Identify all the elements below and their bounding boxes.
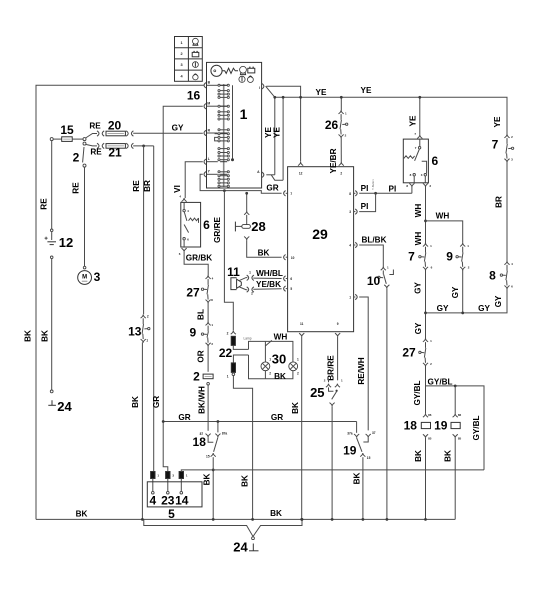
wire GR pin M column (163, 106, 203, 471)
wire BK below 19 coil (454, 438, 456, 520)
svg-text:BK: BK (24, 330, 33, 342)
icon bulb A in switch 1 (240, 66, 247, 73)
ignition switch U1 box (207, 62, 262, 188)
switch S26 (339, 110, 344, 114)
wire pin A link (266, 174, 275, 176)
relay 6 right bottom pins (409, 183, 414, 187)
svg-text:12: 12 (299, 171, 303, 175)
ECU U29 box (288, 167, 354, 332)
ECU pin 9 bottom (335, 333, 340, 337)
svg-text:29: 29 (312, 226, 328, 242)
svg-text:2: 2 (269, 371, 271, 375)
switch 1 right pin A (262, 172, 264, 177)
svg-text:1: 1 (180, 41, 182, 45)
wire GY below 9 (462, 270, 464, 313)
svg-text:RE: RE (132, 180, 141, 192)
ECU pin 2 top (339, 162, 344, 166)
svg-text:85: 85 (428, 436, 432, 440)
wire GY below 7 (425, 270, 427, 313)
ground 24 bottom (252, 537, 255, 540)
svg-text:11: 11 (300, 322, 304, 326)
svg-text:RE: RE (90, 148, 102, 157)
svg-text:14: 14 (175, 494, 189, 508)
wire bus470 frame return (181, 470, 484, 472)
wire BR column to connector 5 pin 4 (153, 146, 155, 472)
wire 18 output to ground buses (212, 457, 214, 519)
svg-text:15: 15 (206, 455, 210, 459)
svg-text:1: 1 (227, 374, 229, 378)
wire GR bus into 19 37a (356, 422, 358, 433)
svg-text:16: 16 (187, 89, 201, 103)
wire BR/RE ECU pin9 to switch 25 (337, 337, 339, 381)
svg-text:2: 2 (73, 151, 80, 165)
switch S27 left (206, 275, 211, 279)
svg-text:6: 6 (203, 218, 210, 232)
wire BK ECU pin11 to ground bus (301, 337, 303, 520)
wire GR/BK relay6 to switch 27 (184, 252, 208, 276)
svg-text:28: 28 (251, 219, 265, 234)
wire WH branch to switch 9 (426, 221, 463, 243)
starter motor M3 (83, 266, 86, 269)
svg-text:RE: RE (39, 198, 48, 210)
wire YE top bus (266, 86, 507, 134)
battery B12 (50, 229, 53, 232)
svg-text:7: 7 (408, 250, 415, 264)
fuse F28 loop (246, 193, 248, 211)
svg-text:2: 2 (251, 292, 253, 296)
svg-text:YE: YE (273, 127, 282, 138)
svg-text:37: 37 (372, 431, 376, 435)
svg-text:15: 15 (60, 123, 74, 137)
svg-text:BR/RE: BR/RE (326, 355, 335, 381)
wire YE bus tap to switch 26 (340, 97, 342, 110)
svg-text:87a: 87a (222, 432, 228, 436)
svg-text:1: 1 (349, 296, 351, 300)
relay K6 right box (403, 139, 428, 183)
svg-text:BK: BK (444, 450, 453, 462)
svg-text:20: 20 (108, 119, 122, 133)
svg-text:22: 22 (219, 346, 233, 360)
switch S10 (381, 267, 386, 271)
svg-text:PI: PI (389, 184, 397, 193)
svg-text:2: 2 (340, 171, 342, 175)
svg-text:8: 8 (349, 192, 351, 196)
svg-text:26: 26 (325, 118, 339, 132)
ECU pin 4 right (355, 242, 357, 247)
fuse F20 (106, 131, 125, 136)
svg-text:6: 6 (431, 154, 438, 168)
relay 6 left bottom pin (182, 248, 187, 252)
wire BK below 18 coil (425, 438, 427, 520)
node switch 2 common (83, 138, 86, 141)
svg-text:GY/BL: GY/BL (427, 377, 452, 386)
switch 1 right pin I (262, 84, 264, 89)
wire GY switch27 right feed (425, 313, 427, 339)
svg-text:M: M (207, 102, 210, 106)
wire YE pair pin I to pin A (274, 97, 276, 175)
svg-text:2: 2 (193, 370, 200, 384)
svg-text:2: 2 (297, 371, 299, 375)
svg-text:86: 86 (458, 413, 462, 417)
svg-text:3: 3 (180, 63, 182, 67)
svg-text:10: 10 (291, 256, 295, 260)
ECU pin 6 left (284, 276, 286, 281)
relay 6 right top pin (417, 135, 422, 139)
svg-text:GR/RE: GR/RE (213, 217, 222, 243)
svg-text:GY: GY (172, 124, 184, 133)
wire GY fuse20 to pin R (133, 132, 203, 134)
svg-text:WH: WH (436, 211, 450, 220)
svg-text:YE: YE (408, 115, 417, 126)
svg-text:BK: BK (291, 402, 300, 414)
svg-text:BK: BK (41, 330, 50, 342)
svg-text:13: 13 (128, 325, 142, 339)
icon battery in switch 1 (248, 68, 255, 73)
svg-text:BK/WH: BK/WH (198, 386, 207, 414)
svg-text:5: 5 (290, 287, 292, 291)
svg-text:BK: BK (258, 248, 270, 257)
svg-text:2: 2 (147, 314, 149, 318)
wire BK below 13 (141, 342, 143, 519)
switch S9 left (206, 322, 211, 326)
svg-text:19: 19 (434, 419, 448, 433)
svg-text:BK: BK (274, 372, 286, 381)
svg-text:Y-Button: Y-Button (371, 179, 375, 190)
wire ground bus 525 (144, 519, 302, 536)
icon bulb B in switch 1 (239, 76, 245, 82)
switch 1 R-group bracket (215, 137, 218, 141)
relay 6 right internals (419, 139, 421, 146)
svg-text:BK: BK (76, 510, 88, 519)
key icon (211, 65, 222, 76)
fuse F15 (50, 138, 53, 141)
svg-text:GY/BL: GY/BL (472, 415, 481, 440)
wire BK/WH to switch 18 (207, 385, 209, 431)
svg-text:RE/WH: RE/WH (357, 357, 366, 384)
wire below 25 to ground bus (331, 406, 333, 519)
lamp unit 30 wiring frame (249, 341, 293, 378)
svg-text:7: 7 (492, 138, 499, 152)
ECU pin 3 right (355, 209, 357, 214)
svg-text:M: M (82, 275, 87, 281)
wire PI ECU pin8 to relay 6 right (359, 192, 412, 194)
wire BR (506, 162, 508, 261)
svg-text:BK: BK (352, 473, 361, 485)
wire RE battery column (51, 141, 53, 229)
svg-text:GY: GY (414, 322, 423, 334)
switch 1 left pin stubs (207, 84, 218, 86)
wire GY/BL to coil bus (425, 366, 427, 413)
svg-text:9: 9 (446, 250, 453, 264)
svg-text:18: 18 (193, 435, 207, 449)
svg-text:85: 85 (458, 436, 462, 440)
wire RE/WH ECU pin1 to switch 19 (359, 297, 368, 430)
ECU pin 1 right (355, 294, 357, 299)
svg-text:YE/BK: YE/BK (256, 280, 281, 289)
relay 6 left top pin (182, 198, 187, 202)
wire YE bus tap to relay 6 right (419, 97, 421, 135)
svg-text:BR: BR (143, 180, 152, 192)
wire pin I to ECU pin 12 (266, 86, 300, 162)
switch S2 lower branch to fuse 21 (83, 142, 86, 145)
wire BK below 19 (362, 457, 364, 519)
connector pins above box 5 (151, 472, 155, 479)
legend icon row3 bulb (193, 62, 199, 68)
svg-text:24: 24 (57, 399, 72, 414)
legend icon row4 lock (193, 75, 198, 80)
svg-text:11: 11 (227, 265, 240, 279)
svg-text:1: 1 (240, 106, 248, 122)
svg-text:WH: WH (414, 204, 423, 218)
svg-text:GY: GY (414, 282, 423, 294)
relay 6 left internals (183, 202, 185, 209)
svg-text:WH/BL: WH/BL (256, 269, 283, 278)
wire Y-pin to GR net (200, 174, 282, 193)
ECU pin 7 left (284, 191, 286, 196)
icon lock in switch 1 (248, 77, 254, 83)
svg-text:8: 8 (489, 269, 496, 283)
wire BL/BK ECU pin4 to switch 10 (359, 245, 383, 267)
svg-text:GR: GR (152, 396, 161, 408)
ECU pin 10 left (284, 255, 286, 260)
svg-text:BL/BK: BL/BK (361, 235, 386, 244)
ground 24 left (50, 390, 53, 393)
svg-text:30: 30 (272, 352, 286, 367)
connector 16 pin chevrons and letters (204, 83, 206, 88)
svg-text:BK: BK (131, 396, 140, 408)
svg-text:L: L (208, 157, 210, 161)
svg-text:BL: BL (196, 309, 205, 320)
switch S27 right (423, 338, 428, 342)
legend icon row2 battery (192, 52, 199, 56)
switch S18 left contacts (206, 434, 211, 438)
wire BL (207, 303, 209, 322)
legend icon row1 bulb (193, 38, 199, 44)
svg-text:3: 3 (94, 270, 101, 284)
coil K19 right (454, 386, 456, 414)
svg-text:YE/BR: YE/BR (329, 148, 338, 173)
GR bus to interlock switches (163, 421, 356, 423)
wire RE column to switch 13 (143, 146, 145, 314)
svg-text:YE: YE (316, 88, 327, 97)
svg-text:4: 4 (149, 494, 156, 508)
wire switch 10 to ground bus (386, 288, 388, 519)
svg-text:YE: YE (361, 86, 372, 95)
wire YE/BK horn to pin 5 (240, 287, 248, 290)
svg-text:15: 15 (367, 456, 371, 460)
svg-text:1: 1 (249, 270, 251, 274)
switch S25 (328, 379, 330, 383)
wire B-pin horizontal and outer-left BK vertical (36, 85, 204, 519)
wire GY below 8 (426, 289, 508, 313)
wire GR/RE column to lamp switch 22 (224, 191, 233, 331)
switch S19 left contacts (354, 434, 359, 438)
svg-text:WH: WH (274, 332, 288, 341)
legend table of indicator lamps (175, 37, 203, 82)
svg-text:25: 25 (310, 385, 324, 400)
svg-text:37a: 37a (347, 431, 353, 435)
switch 1 contact rows (218, 84, 220, 86)
svg-text:GR/BK: GR/BK (186, 253, 212, 262)
svg-text:86: 86 (428, 413, 432, 417)
svg-text:GY: GY (451, 286, 460, 298)
horn H11 (231, 278, 237, 290)
svg-text:9: 9 (189, 326, 196, 340)
svg-text:BK: BK (414, 450, 423, 462)
svg-text:VI: VI (173, 185, 182, 193)
svg-text:BK: BK (203, 474, 212, 486)
GY/BL bus (426, 386, 485, 470)
svg-text:PI: PI (361, 184, 369, 193)
svg-text:RE: RE (89, 122, 101, 131)
svg-text:YE: YE (493, 116, 502, 127)
svg-text:2: 2 (227, 331, 229, 335)
svg-text:GY: GY (478, 304, 490, 313)
fuse F2 lower (203, 374, 213, 379)
svg-text:4: 4 (349, 244, 351, 248)
wire OR (207, 346, 209, 372)
connector 22 upper pin (231, 331, 236, 335)
connector 22 lower pin (233, 355, 248, 363)
svg-text:GY: GY (494, 295, 503, 307)
ECU pin 12 top (298, 162, 303, 166)
ECU pin 11 bottom (299, 333, 304, 337)
svg-text:GR: GR (178, 413, 190, 422)
switch 1 internal contact rails (223, 84, 225, 187)
svg-text:GY: GY (437, 304, 449, 313)
svg-text:2: 2 (180, 52, 182, 56)
svg-text:7: 7 (290, 192, 292, 196)
svg-text:19: 19 (343, 443, 357, 457)
coil K18 right (423, 414, 428, 418)
svg-text:OR: OR (197, 350, 206, 362)
switch S9 right (460, 243, 465, 247)
switch S8 (504, 261, 509, 265)
wire 22 lower BK to ground bus (233, 376, 252, 520)
svg-text:10: 10 (367, 274, 381, 288)
wire WH/BL horn to pin 6 (240, 278, 248, 281)
lamp 30 right bulb (289, 362, 298, 371)
wire YE/BR to ECU pin 2 (340, 138, 342, 162)
relay K6 left box (181, 202, 201, 247)
box 5 (147, 482, 202, 507)
svg-text:1: 1 (297, 358, 299, 362)
svg-text:18: 18 (404, 419, 418, 433)
svg-text:BR: BR (494, 196, 503, 208)
wire VI pin L to relay 6 (185, 162, 203, 198)
wire BK battery to ground (50, 256, 53, 259)
svg-text:27: 27 (186, 285, 200, 299)
svg-text:9: 9 (337, 322, 339, 326)
svg-text:21: 21 (108, 146, 122, 160)
switch S13 (141, 315, 146, 319)
svg-text:WH: WH (414, 232, 423, 246)
svg-text:BK: BK (270, 509, 282, 518)
ECU pin 8 right (355, 191, 357, 196)
wire WH relay to junction (425, 187, 427, 243)
svg-text:24: 24 (233, 540, 248, 555)
switch S2 upper branch to fuse 20 (86, 134, 97, 139)
wire 18 87a to GR bus (217, 422, 219, 433)
wire 22 upper to lamp rail (233, 345, 248, 349)
lamp 30 stems (264, 341, 266, 361)
svg-text:GR: GR (266, 183, 278, 192)
svg-text:GR: GR (271, 413, 283, 422)
wire fuse21 output to RE and BR columns (133, 145, 154, 147)
svg-text:1: 1 (146, 339, 148, 343)
svg-text:GY/BL: GY/BL (413, 380, 422, 405)
svg-text:3: 3 (349, 210, 351, 214)
switch S7 right (504, 134, 509, 138)
svg-text:27: 27 (402, 346, 416, 360)
svg-text:BK: BK (241, 475, 250, 487)
switch S7 left (423, 243, 428, 247)
switch S2 blade (83, 147, 84, 162)
svg-text:12: 12 (59, 235, 73, 250)
fuse F21 (106, 144, 125, 149)
svg-text:RE: RE (72, 182, 81, 194)
svg-text:5: 5 (168, 507, 175, 521)
svg-text:I: I (259, 86, 260, 90)
svg-text:Lamp: Lamp (244, 336, 252, 340)
svg-text:PI: PI (361, 202, 369, 211)
ECU pin 5 left (284, 286, 286, 291)
svg-text:23: 23 (161, 494, 175, 508)
lamp 30 left bulb (261, 362, 270, 371)
wire RE to starter motor (84, 167, 86, 266)
svg-text:6: 6 (290, 277, 292, 281)
wire PI ECU pin3 loop (359, 193, 375, 211)
wire bottom BK bus (36, 518, 455, 520)
